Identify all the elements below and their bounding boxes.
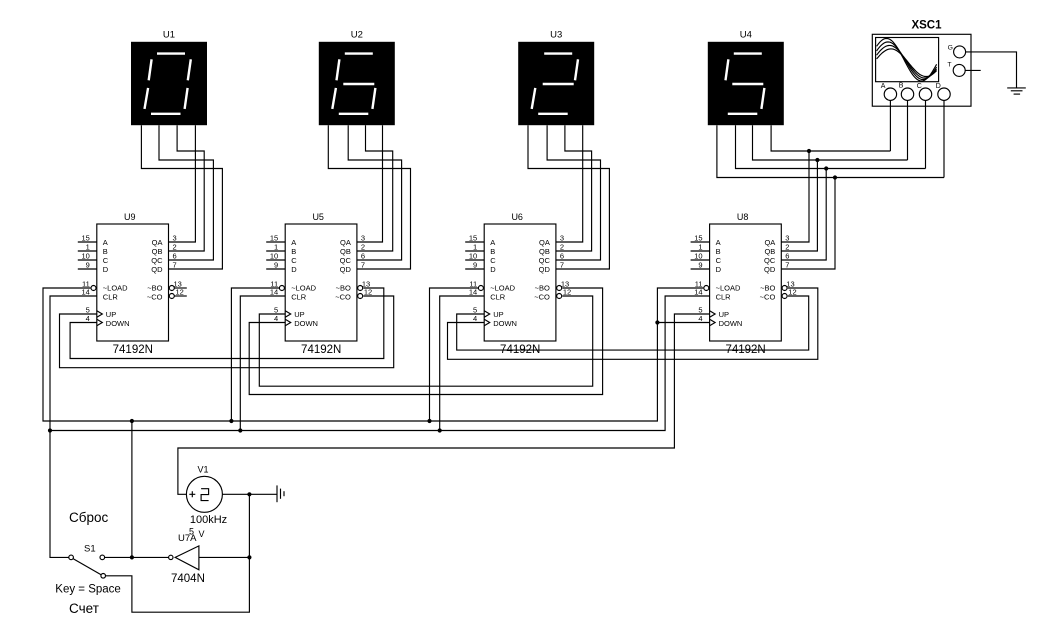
svg-text:U4: U4	[740, 30, 752, 41]
wire U6 QC to U3 pin 2	[547, 125, 600, 260]
stub U9 ~BO pin 13	[174, 287, 186, 289]
wire U5 ~LOAD branch	[231, 288, 279, 421]
svg-text:CLR: CLR	[103, 293, 119, 302]
junction CLR bus / U9-S1	[48, 428, 52, 432]
wire U6 ~CO to U5 UP	[259, 296, 592, 386]
svg-text:C: C	[490, 256, 496, 265]
wire U6 ~LOAD branch	[430, 288, 479, 421]
junction net QB	[815, 158, 819, 162]
svg-text:DOWN: DOWN	[493, 319, 517, 328]
S1 throw contact 1	[100, 555, 105, 560]
svg-text:C: C	[716, 256, 722, 265]
wire U6 QB to U3 pin 3	[556, 125, 592, 251]
svg-text:6: 6	[560, 252, 564, 261]
junction net QC	[824, 166, 828, 170]
svg-text:U9: U9	[124, 212, 136, 222]
svg-text:Сброс: Сброс	[69, 510, 108, 525]
svg-text:100kHz: 100kHz	[190, 514, 227, 526]
svg-text:DOWN: DOWN	[294, 319, 318, 328]
junction CLR bus / U6	[438, 428, 442, 432]
svg-text:12: 12	[364, 288, 372, 297]
svg-text:1: 1	[86, 243, 90, 252]
svg-text:C: C	[917, 83, 922, 90]
svg-text:QC: QC	[539, 256, 551, 265]
svg-text:CLR: CLR	[490, 293, 506, 302]
svg-text:UP: UP	[106, 310, 116, 319]
svg-text:12: 12	[176, 288, 184, 297]
wire V1 plus terminal to U8 UP	[178, 314, 710, 494]
svg-text:14: 14	[469, 288, 477, 297]
wire scope G terminal to ground	[966, 52, 1017, 88]
svg-text:QA: QA	[152, 238, 163, 247]
wire U5 CLR branch	[240, 296, 285, 431]
junction switch throw 1 node	[130, 555, 134, 559]
svg-text:T: T	[947, 61, 951, 68]
svg-text:3: 3	[560, 234, 564, 243]
svg-text:B: B	[103, 247, 108, 256]
svg-text:D: D	[291, 265, 297, 274]
svg-text:~CO: ~CO	[335, 293, 351, 302]
svg-text:4: 4	[86, 314, 90, 323]
svg-text:QB: QB	[764, 247, 775, 256]
S1 pole contact	[69, 555, 74, 560]
svg-text:14: 14	[694, 288, 702, 297]
svg-text:1: 1	[274, 243, 278, 252]
counter U5 (74192N)	[266, 224, 372, 341]
oscilloscope XSC1	[872, 34, 971, 106]
svg-text:7: 7	[173, 261, 177, 270]
svg-text:UP: UP	[294, 310, 304, 319]
svg-text:15: 15	[694, 234, 702, 243]
svg-text:74192N: 74192N	[113, 344, 153, 356]
svg-text:V1: V1	[197, 465, 208, 475]
svg-text:U6: U6	[511, 212, 523, 222]
wire U8 ~BO to U6 DOWN	[448, 288, 818, 359]
svg-text:U1: U1	[163, 30, 175, 41]
svg-text:6: 6	[361, 252, 365, 261]
svg-text:U5: U5	[312, 212, 324, 222]
junction ~LOAD bus / switch branch	[130, 419, 134, 423]
svg-text:7: 7	[361, 261, 365, 270]
wire scope terminal D down	[943, 100, 945, 177]
wire U8 QC up to net QC	[781, 169, 826, 261]
wire switch throw 2 (Schet) loop to inverter input node	[105, 557, 249, 612]
svg-text:S1: S1	[84, 544, 96, 555]
seven-segment display U2 showing digit 6	[319, 42, 395, 125]
wire U9 QB to U1 pin 3	[169, 125, 205, 251]
svg-text:DOWN: DOWN	[106, 319, 130, 328]
svg-text:QA: QA	[340, 238, 351, 247]
svg-text:6: 6	[785, 252, 789, 261]
svg-text:B: B	[490, 247, 495, 256]
wire V1 node down to inverter input node	[248, 494, 250, 557]
svg-text:~CO: ~CO	[147, 293, 163, 302]
svg-text:1: 1	[698, 243, 702, 252]
svg-text:QD: QD	[340, 265, 352, 274]
svg-text:D: D	[936, 83, 941, 90]
svg-text:A: A	[490, 238, 495, 247]
svg-text:U7A: U7A	[178, 533, 197, 544]
wire U4 pin 4 to scope A (net QA)	[771, 125, 890, 151]
svg-text:QB: QB	[152, 247, 163, 256]
junction net QA	[807, 149, 811, 153]
svg-text:~CO: ~CO	[534, 293, 550, 302]
junction inverter input node	[247, 555, 251, 559]
svg-text:G: G	[948, 45, 953, 52]
wire scope terminal C down	[925, 100, 927, 168]
junction U8 DOWN / ~LOAD branch	[655, 320, 659, 324]
svg-text:U3: U3	[550, 30, 562, 41]
svg-text:~BO: ~BO	[535, 284, 550, 293]
S1 blade	[73, 559, 101, 575]
svg-text:15: 15	[81, 234, 89, 243]
wire CLR: U9 CLR down to switch common S1	[50, 296, 97, 557]
svg-text:7: 7	[560, 261, 564, 270]
wire U5 QD to U2 pin 1	[328, 125, 410, 269]
wire scope terminal B down	[907, 100, 909, 160]
wire U8 ~CO to U6 UP	[457, 296, 809, 350]
svg-text:3: 3	[785, 234, 789, 243]
wire U6 QD to U3 pin 1	[528, 125, 609, 269]
wire U5 ~BO to U9 DOWN	[70, 288, 384, 359]
inverter U7A (7404N)	[169, 546, 199, 570]
svg-text:XSC1: XSC1	[911, 20, 942, 32]
svg-text:7404N: 7404N	[171, 573, 205, 585]
wire U4 pin 1 to scope D (net QD)	[717, 125, 944, 177]
svg-text:C: C	[291, 256, 297, 265]
seven-segment display U1 showing digit 0	[131, 42, 207, 125]
svg-text:QC: QC	[764, 256, 776, 265]
svg-text:2: 2	[361, 243, 365, 252]
svg-text:6: 6	[173, 252, 177, 261]
wire ~LOAD bus U9-U8	[43, 288, 703, 421]
svg-text:QB: QB	[340, 247, 351, 256]
svg-text:3: 3	[361, 234, 365, 243]
svg-text:10: 10	[469, 252, 477, 261]
svg-text:9: 9	[274, 261, 278, 270]
seven-segment display U4 showing digit 5	[708, 42, 784, 125]
wire U4 pin 2 to scope C (net QC)	[736, 125, 926, 168]
wire V1 minus terminal to ground	[222, 493, 277, 495]
junction net QD	[833, 175, 837, 179]
svg-text:12: 12	[788, 288, 796, 297]
svg-text:14: 14	[81, 288, 89, 297]
svg-text:~CO: ~CO	[760, 293, 776, 302]
wire scope T terminal stub	[965, 69, 981, 71]
svg-text:~LOAD: ~LOAD	[291, 284, 316, 293]
svg-text:2: 2	[560, 243, 564, 252]
svg-text:~BO: ~BO	[147, 284, 162, 293]
svg-text:C: C	[103, 256, 109, 265]
svg-text:9: 9	[86, 261, 90, 270]
svg-text:UP: UP	[493, 310, 503, 319]
svg-text:10: 10	[694, 252, 702, 261]
wire inverter output to switch throw 1 (Sbros)	[105, 556, 169, 558]
svg-text:9: 9	[698, 261, 702, 270]
S1 throw contact 2	[101, 574, 106, 579]
wire U8 QB up to net QB	[781, 160, 817, 251]
svg-text:QB: QB	[539, 247, 550, 256]
svg-text:4: 4	[473, 314, 477, 323]
svg-text:2: 2	[785, 243, 789, 252]
junction CLR bus / U5	[238, 428, 242, 432]
svg-text:1: 1	[473, 243, 477, 252]
svg-text:V: V	[199, 529, 205, 539]
svg-text:2: 2	[173, 243, 177, 252]
svg-text:A: A	[716, 238, 721, 247]
svg-text:74192N: 74192N	[301, 344, 341, 356]
svg-text:~BO: ~BO	[336, 284, 351, 293]
wire U9 QD to U1 pin 1	[141, 125, 222, 269]
svg-text:10: 10	[81, 252, 89, 261]
svg-text:A: A	[103, 238, 108, 247]
svg-text:CLR: CLR	[291, 293, 307, 302]
svg-text:UP: UP	[719, 310, 729, 319]
svg-text:D: D	[103, 265, 109, 274]
svg-text:12: 12	[563, 288, 571, 297]
ground symbol top right	[1007, 88, 1026, 94]
stub U9 ~CO pin 12	[174, 295, 186, 297]
wire U8 QA up to net QA	[781, 151, 809, 242]
svg-text:~LOAD: ~LOAD	[716, 284, 741, 293]
svg-text:~LOAD: ~LOAD	[103, 284, 128, 293]
svg-text:B: B	[291, 247, 296, 256]
svg-text:~LOAD: ~LOAD	[490, 284, 515, 293]
svg-text:4: 4	[274, 314, 278, 323]
svg-text:CLR: CLR	[716, 293, 732, 302]
clock voltage source V1 100kHz 5V	[186, 476, 222, 512]
junction V1 minus node	[247, 492, 251, 496]
wire U6 CLR branch	[440, 296, 485, 431]
svg-text:U2: U2	[351, 30, 363, 41]
svg-text:DOWN: DOWN	[719, 319, 743, 328]
wire CLR bus to U8 CLR	[50, 296, 710, 431]
wire U8 DOWN to ~LOAD branch	[657, 322, 709, 324]
svg-text:B: B	[716, 247, 721, 256]
wire U5 QC to U2 pin 2	[348, 125, 401, 260]
svg-text:15: 15	[270, 234, 278, 243]
svg-text:QD: QD	[151, 265, 163, 274]
wire U5 ~CO to U9 UP	[60, 296, 394, 368]
wire U5 QB to U2 pin 3	[357, 125, 393, 251]
svg-text:15: 15	[469, 234, 477, 243]
svg-text:D: D	[716, 265, 722, 274]
svg-text:10: 10	[270, 252, 278, 261]
wire ~LOAD bus down to switch/inverter node	[131, 421, 133, 557]
junction ~LOAD bus / U6	[427, 419, 431, 423]
svg-text:4: 4	[698, 314, 702, 323]
wire U5 QA to U2 pin 4	[357, 125, 383, 242]
seven-segment display U3 showing digit 2	[518, 42, 594, 125]
junction ~LOAD bus / U5	[229, 419, 233, 423]
svg-text:Key = Space: Key = Space	[55, 583, 121, 595]
wire U4 pin 3 to scope B (net QB)	[753, 125, 908, 160]
svg-text:~BO: ~BO	[760, 284, 775, 293]
svg-text:D: D	[490, 265, 496, 274]
wire inverter input to V1/ground node	[199, 556, 250, 558]
svg-text:9: 9	[473, 261, 477, 270]
svg-text:7: 7	[785, 261, 789, 270]
switch S1 (Key = Space)	[69, 555, 106, 578]
svg-text:QC: QC	[151, 256, 163, 265]
svg-text:QD: QD	[764, 265, 776, 274]
svg-text:14: 14	[270, 288, 278, 297]
counter U9 (74192N)	[78, 224, 184, 341]
wire U8 QD up to net QD	[781, 178, 835, 270]
wire U9 QA to U1 pin 4	[169, 125, 196, 242]
svg-text:Счет: Счет	[69, 601, 99, 616]
svg-text:B: B	[899, 83, 904, 90]
svg-text:A: A	[881, 83, 886, 90]
wire U6 ~BO to U5 DOWN	[249, 288, 602, 395]
ground symbol right of V1 (rotated)	[277, 485, 284, 502]
wire U9 QC to U1 pin 2	[159, 125, 213, 260]
svg-text:QD: QD	[539, 265, 551, 274]
svg-text:A: A	[291, 238, 296, 247]
counter U6 (74192N)	[465, 224, 571, 341]
wire U6 QA to U3 pin 4	[556, 125, 583, 242]
svg-text:QA: QA	[539, 238, 550, 247]
svg-text:QA: QA	[764, 238, 775, 247]
svg-text:3: 3	[173, 234, 177, 243]
counter U8 (74192N)	[691, 224, 797, 341]
svg-text:QC: QC	[340, 256, 352, 265]
wire scope terminal A down	[889, 100, 891, 151]
svg-text:U8: U8	[737, 212, 749, 222]
